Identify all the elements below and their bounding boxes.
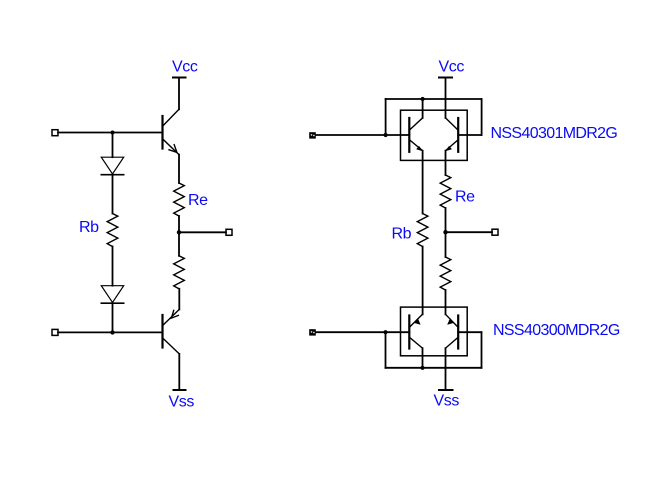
wire base node to diode D1 bbox=[112, 133, 114, 158]
wire Q2 collector to Vss bbox=[178, 354, 180, 390]
svg-text:Rb: Rb bbox=[392, 226, 412, 243]
terminal output (left circuit) bbox=[226, 229, 232, 235]
transistor U1A (left NPN of pair) bbox=[409, 118, 423, 152]
resistor R2 (unlabeled, left) bbox=[174, 256, 185, 289]
wire R2 to Q2 emitter bbox=[178, 289, 180, 310]
svg-text:Vcc: Vcc bbox=[439, 59, 465, 76]
wire input2 to Q2 base bbox=[58, 331, 163, 333]
wire Vcc to Q1 collector bbox=[178, 78, 180, 110]
resistor Rb (right) bbox=[417, 214, 428, 247]
svg-text:Vss: Vss bbox=[169, 394, 195, 411]
diode D2 bbox=[101, 286, 123, 304]
svg-text:NSS40300MDR2G: NSS40300MDR2G bbox=[493, 322, 620, 339]
node OUT junction dot (left) bbox=[177, 230, 181, 234]
power symbol Vss (left) bbox=[174, 389, 186, 391]
junction dot U1 left edge / base wire bbox=[384, 133, 388, 137]
wire D1 to Rb bbox=[112, 175, 114, 214]
wire U2 feedback loop (collector-base tie) bbox=[386, 332, 482, 368]
wire U2A collector to bottom loop bbox=[422, 348, 424, 368]
wire U1A collector to top loop bbox=[422, 99, 424, 118]
resistor Re2 (unlabeled, right) bbox=[440, 257, 451, 290]
wire D2 to bottom node bbox=[112, 303, 114, 332]
svg-text:Vss: Vss bbox=[434, 393, 460, 410]
terminal input 3 (right circuit top, filled) bbox=[309, 132, 316, 138]
power symbol Vcc (right) bbox=[439, 77, 452, 79]
terminal input 4 (right circuit bottom, filled) bbox=[309, 329, 316, 335]
wire Re to output node (right) bbox=[445, 208, 447, 232]
resistor Re (left) bbox=[174, 183, 185, 216]
transistor U2A (left PNP of pair) bbox=[409, 314, 422, 348]
diode D1 bbox=[101, 157, 123, 175]
wire output node to Re2 bbox=[445, 232, 447, 257]
transistor Q1 (NPN) bbox=[163, 109, 180, 154]
transistor U1B (right NPN of pair) bbox=[445, 118, 458, 152]
package outline U1 (NSS40301) bbox=[401, 110, 468, 160]
svg-text:Re: Re bbox=[455, 189, 475, 206]
wire output node to terminal (right) bbox=[446, 231, 493, 233]
node B junction dot (bottom base wire) bbox=[110, 330, 114, 334]
svg-text:Rb: Rb bbox=[79, 219, 99, 236]
junction dot U1 top wire / left collector bbox=[421, 97, 425, 101]
package outline U2 (NSS40300) bbox=[401, 307, 468, 356]
resistor Rb (left) bbox=[107, 214, 118, 247]
transistor U2B (right PNP of pair) bbox=[446, 314, 459, 348]
terminal input 1 (left top) bbox=[52, 130, 58, 136]
wire Q1 emitter to Re bbox=[178, 155, 180, 183]
svg-text:Re: Re bbox=[188, 192, 208, 209]
wire U2B collector to Vss bbox=[445, 348, 447, 390]
wire input1 to Q1 base bbox=[58, 132, 163, 134]
wire U1B emitter to Re (right) bbox=[445, 151, 447, 175]
transistor Q2 (PNP) bbox=[163, 309, 180, 354]
wire Rb to diode D2 bbox=[112, 247, 114, 286]
wire U1B base to right loop edge bbox=[458, 134, 481, 136]
terminal input 2 (left bottom) bbox=[52, 329, 58, 335]
wire Vcc to U1 right collector bbox=[445, 78, 447, 118]
wire Re2 to U2 right emitter bbox=[445, 290, 447, 314]
wire U1A emitter to Rb (right) bbox=[422, 151, 424, 214]
power symbol Vcc (left) bbox=[173, 77, 186, 79]
svg-text:NSS40301MDR2G: NSS40301MDR2G bbox=[491, 125, 618, 142]
wire input4 to U2 left base bbox=[316, 331, 410, 333]
wire input3 to U1 left base bbox=[316, 134, 410, 136]
power symbol Vss (right) bbox=[439, 389, 453, 391]
svg-text:Vcc: Vcc bbox=[172, 59, 198, 76]
wire U2B base to right loop edge bbox=[458, 331, 481, 333]
node OUT junction dot (right) bbox=[443, 230, 447, 234]
wire Rb to U2 left emitter bbox=[422, 247, 424, 315]
wire output node to terminal bbox=[179, 231, 226, 233]
wire Re to output node bbox=[178, 216, 180, 232]
wire output node to R2 bbox=[178, 232, 180, 256]
resistor Re (right) bbox=[440, 175, 451, 208]
junction dot U2 bottom wire / left collector bbox=[420, 366, 424, 370]
wire U1 feedback loop (collector-base tie) bbox=[386, 99, 482, 135]
terminal output (right circuit) bbox=[492, 229, 498, 235]
node A junction dot (diode chain / base wire) bbox=[111, 131, 115, 135]
junction dot U2 left edge / base wire bbox=[383, 330, 387, 334]
